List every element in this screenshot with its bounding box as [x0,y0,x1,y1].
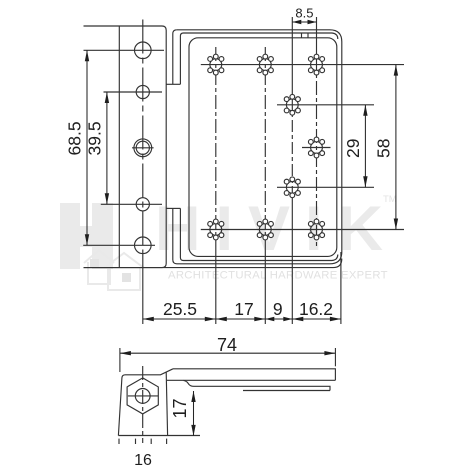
right edge extension [340,252,342,324]
dim 29 line [364,105,366,188]
screw hole r1c1 [208,54,224,75]
svg-text:8.5: 8.5 [295,6,313,21]
arm top edge [173,369,335,381]
arrow 8.5 right [308,20,317,24]
screw hole r1c3 [308,54,324,75]
svg-text:16: 16 [134,452,152,469]
hex nut [127,378,158,414]
column centerline cb [291,17,293,98]
hole A5 [135,237,152,254]
dim 68.5 line [86,50,88,245]
screw hole r2 [284,94,300,115]
svg-text:16.2: 16.2 [299,299,333,319]
svg-text:9: 9 [273,299,283,319]
column centerline c2 [264,47,266,247]
row line A [201,64,404,66]
arrow 74 left [120,351,131,355]
row line D [277,186,374,188]
svg-text:68.5: 68.5 [65,121,85,155]
svg-text:25.5: 25.5 [163,299,197,319]
pivot crosshair horizontal [128,395,159,397]
arrow 68.5 bottom [85,234,89,245]
row line C [302,147,331,149]
svg-text:58: 58 [374,139,394,158]
dim 17 line [193,391,195,436]
ext 74 right [334,348,336,366]
plate outer outline [173,30,342,264]
column centerline c3 [316,17,318,57]
arrow 29 top [363,105,367,116]
pivot circle [135,389,150,404]
ext 74 left [119,348,121,372]
tick 1 [118,439,120,444]
leaf centerline [142,20,144,256]
column centerline c1 [215,47,217,247]
pivot centerline [142,366,144,443]
plate inner outline [189,38,337,257]
screw hole r5c3 [308,219,324,240]
arrow 25.5 right [205,317,216,321]
arrow 58 top [394,65,398,76]
screw hole r1c2 [257,54,273,75]
plate top notch [301,33,303,38]
svg-text:TM: TM [383,194,397,205]
dim 8.5 line [292,21,316,23]
screw hole r5c1 [208,219,224,240]
arrow 9 left [265,317,274,321]
tick 2 [135,439,137,444]
plate bottom outer edge [84,259,342,268]
hole A4 centerline [101,203,162,205]
leaf outline [84,26,167,268]
arrow 17 left [216,317,227,321]
arrow 58 bottom [394,219,398,230]
arrow 9 right [283,317,292,321]
dim 39.5 line [106,92,108,204]
svg-text:17: 17 [234,299,253,319]
hole A2 centerline [104,91,163,93]
plate slot cap bottom [166,207,180,209]
hole A1 centerline [84,49,165,51]
arrow 8.5 left [292,20,301,24]
tick 3 [150,439,152,444]
watermark logo block H [60,203,113,269]
arrow 68.5 top [85,50,89,61]
pivot block right edge [166,372,167,436]
leaf fold line [118,26,120,268]
watermark house icons [84,250,144,290]
hole A2 [136,85,149,98]
svg-text:29: 29 [343,139,363,158]
arrow 25.5 left [143,317,154,321]
arrow 16.2 right [330,317,341,321]
tick 4 [166,439,168,444]
arrow 16.2 left [292,317,303,321]
arrow 74 right [324,351,335,355]
arrow 29 bottom [363,176,367,187]
arm shelf line [184,380,331,390]
arm lower edge [167,379,335,381]
base line [118,435,200,437]
plate mid top line [180,33,337,84]
screw hole r5c2 [257,219,273,240]
arrow 17 right [254,317,265,321]
screw hole r3 [308,137,324,158]
arrow 17s bottom [191,425,195,436]
arrow 39.5 bottom [105,193,109,204]
hole A3 (counterbored) [134,139,152,157]
svg-text:39.5: 39.5 [85,121,105,155]
svg-text:74: 74 [217,335,237,355]
arrow 17s top [191,391,195,402]
plate mid bottom line [180,208,337,260]
svg-text:17: 17 [170,398,190,418]
bottom dims line [143,318,341,320]
dim 58 line [395,65,397,230]
pivot block outline [118,369,173,436]
svg-text:ARCHITECTURAL HARDWARE EXPERT: ARCHITECTURAL HARDWARE EXPERT [168,270,388,282]
plate slot cap top [166,83,180,85]
arrow 39.5 top [105,92,109,103]
dim 74 line [120,352,336,354]
hole A4 [136,198,149,211]
hole A3 centerline [132,147,154,149]
hole A1 [135,42,152,59]
screw hole r4 [284,177,300,198]
arm bottom lip [243,390,330,392]
hole A5 centerline [83,244,155,246]
row line E [201,229,404,231]
row line B [277,104,374,106]
